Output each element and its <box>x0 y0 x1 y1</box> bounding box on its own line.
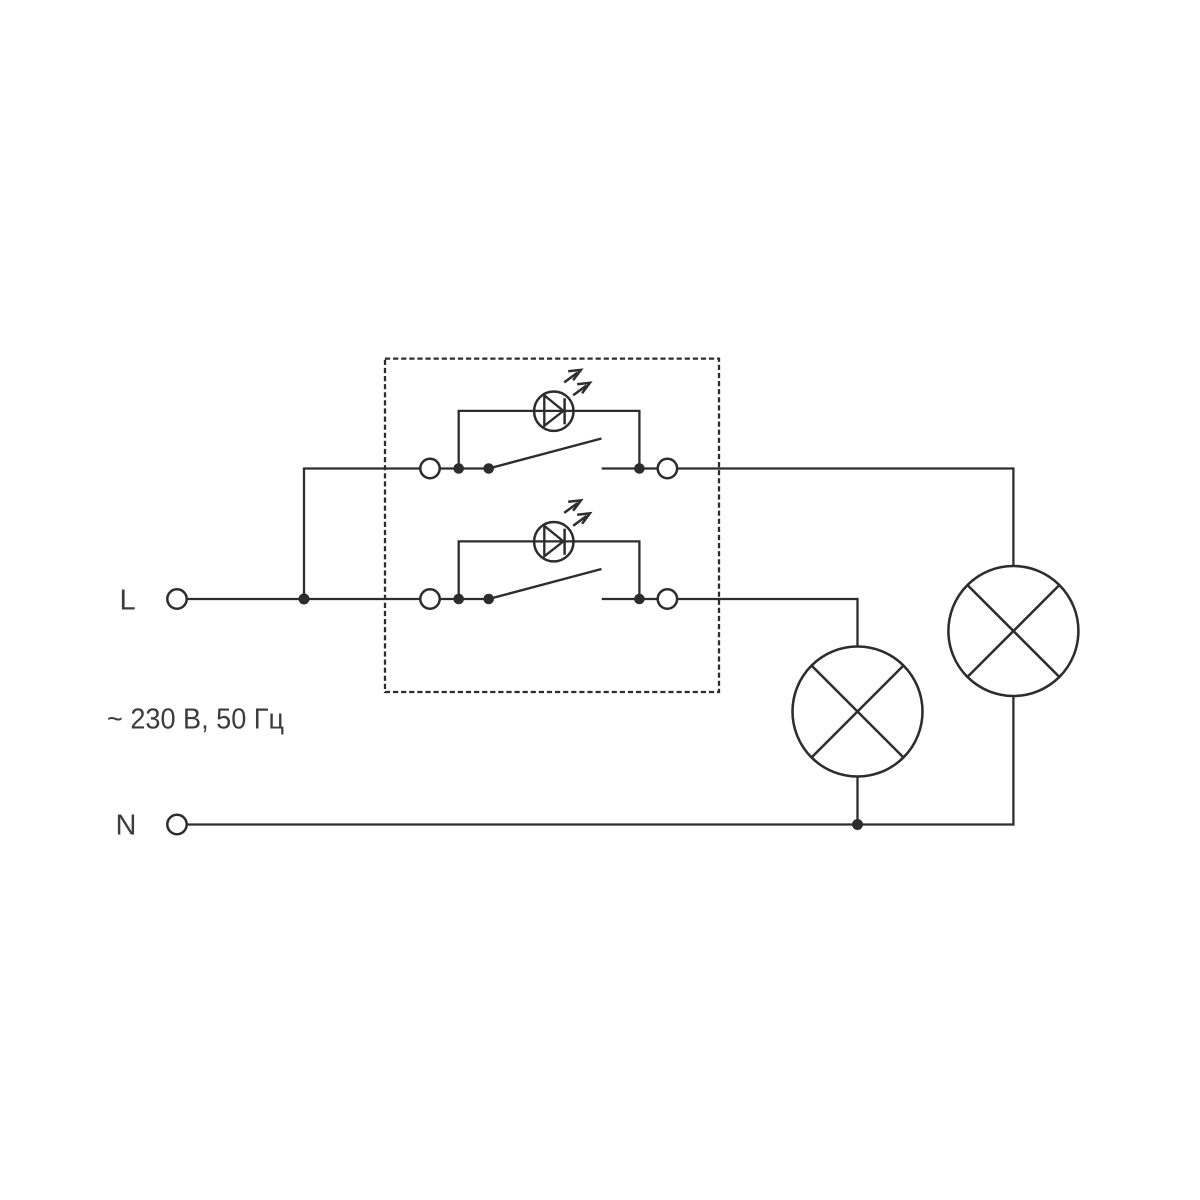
terminal L <box>167 589 186 608</box>
wire LED2 top horizontal <box>458 540 641 542</box>
wire EL2 drop <box>856 598 858 647</box>
lamp EL2 <box>793 647 923 777</box>
node L branch junction <box>299 594 310 605</box>
node S2 output <box>634 594 645 605</box>
wire branch to switch 1 input <box>303 467 421 469</box>
LED HL2 <box>534 522 573 561</box>
wire S1 to lamp EL1 <box>677 467 1014 469</box>
LED HL1 arrows <box>564 370 590 395</box>
node S2 LED tap <box>453 594 464 605</box>
terminal N <box>167 815 186 834</box>
switch S2 input terminal <box>420 589 439 608</box>
svg-text:N: N <box>116 809 137 841</box>
wire N <box>188 823 1015 825</box>
wire S1 output stub <box>602 467 640 469</box>
svg-text:L: L <box>120 585 136 617</box>
wire EL1 drop <box>1012 467 1014 566</box>
switch S1 output terminal <box>658 459 677 478</box>
wire S2 output to terminal <box>644 598 658 600</box>
LED HL1 <box>534 392 573 431</box>
node N junction <box>852 819 863 830</box>
enclosure dashed box <box>385 359 719 692</box>
wire LED1 top horizontal <box>458 410 641 412</box>
node S2 pole <box>483 594 494 605</box>
wire branch up <box>303 469 305 600</box>
wire S2 to lamp EL2 <box>677 598 858 600</box>
wire S1 output to terminal <box>644 467 658 469</box>
switch S2 output terminal <box>658 589 677 608</box>
node S1 output <box>634 463 645 474</box>
wire S2 input <box>440 598 489 600</box>
switch S1 input terminal <box>420 459 439 478</box>
svg-text:~ 230 В, 50 Гц: ~ 230 В, 50 Гц <box>107 704 284 736</box>
wire S1 input <box>440 467 489 469</box>
wire S2 output stub <box>602 598 640 600</box>
wire LED1 left vertical <box>458 411 460 469</box>
wire EL1 to N <box>1012 696 1014 826</box>
switch S1 blade <box>489 439 602 469</box>
LED HL2 arrows <box>564 500 590 525</box>
switch S2 blade <box>489 569 602 599</box>
wire LED1 right vertical <box>638 411 640 469</box>
wire LED2 left vertical <box>458 541 460 599</box>
wire LED2 right vertical <box>638 541 640 599</box>
wire L to switch 2 input <box>188 598 421 600</box>
node S1 pole <box>483 463 494 474</box>
wire EL2 to N <box>856 777 858 825</box>
node S1 LED tap <box>453 463 464 474</box>
lamp EL1 <box>948 566 1078 696</box>
